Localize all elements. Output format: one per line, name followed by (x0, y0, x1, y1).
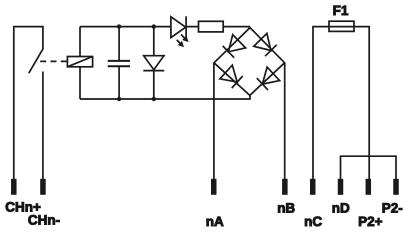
wire P2+ drop (368, 156, 370, 179)
terminal nD (338, 179, 344, 195)
wire CHn+ up and across top (14, 27, 43, 179)
switch S1 actuator dashed link (40, 60, 67, 62)
wire distribution rail (341, 156, 397, 179)
terminal nB (282, 179, 288, 195)
wire capacitor bottom (118, 66, 120, 99)
svg-text:P2+: P2+ (358, 214, 383, 229)
wire nB (284, 63, 286, 179)
wire relay coil bottom (79, 67, 81, 99)
wire top rail (80, 26, 199, 28)
bridge diode bottom-left (220, 65, 237, 82)
bridge diode top-right (254, 33, 271, 50)
svg-text:P2-: P2- (382, 200, 403, 215)
relay coil K1 (67, 57, 92, 67)
terminal CHn- (40, 179, 46, 195)
svg-text:nB: nB (277, 200, 295, 215)
svg-text:nD: nD (332, 200, 350, 215)
bridge diode top-left (228, 35, 245, 52)
wire relay coil top (79, 27, 81, 57)
wire capacitor top (118, 27, 120, 60)
svg-text:nA: nA (206, 214, 224, 229)
svg-text:F1: F1 (333, 3, 349, 18)
terminal CHn+ (11, 179, 16, 195)
node top-capacitor junction (117, 24, 121, 28)
terminal nC (310, 179, 316, 195)
terminal P2+ (366, 179, 372, 195)
bridge rectifier outline (214, 28, 285, 96)
wire bottom rail (80, 95, 250, 99)
node bottom-diode junction (152, 97, 156, 101)
capacitor C1 (108, 60, 130, 62)
fuse F1 (329, 21, 354, 31)
svg-text:nC: nC (304, 214, 322, 229)
bridge diode bottom-right (262, 67, 279, 84)
switch S1 blade (29, 48, 44, 73)
wire CHn- down (42, 72, 44, 180)
LED light arrows (181, 35, 184, 38)
svg-text:CHn-: CHn- (28, 213, 60, 228)
LED D2 (171, 17, 186, 38)
node bottom-capacitor junction (117, 97, 121, 101)
wire diode top (153, 27, 155, 56)
diode D1 (144, 56, 164, 70)
node top-diode junction (152, 24, 156, 28)
resistor R1 (199, 21, 224, 32)
wire fuse left / nC (313, 27, 369, 179)
wire nA (213, 63, 215, 179)
terminal nA (211, 179, 217, 195)
wire diode bottom (153, 71, 155, 99)
terminal P2- (393, 179, 399, 195)
